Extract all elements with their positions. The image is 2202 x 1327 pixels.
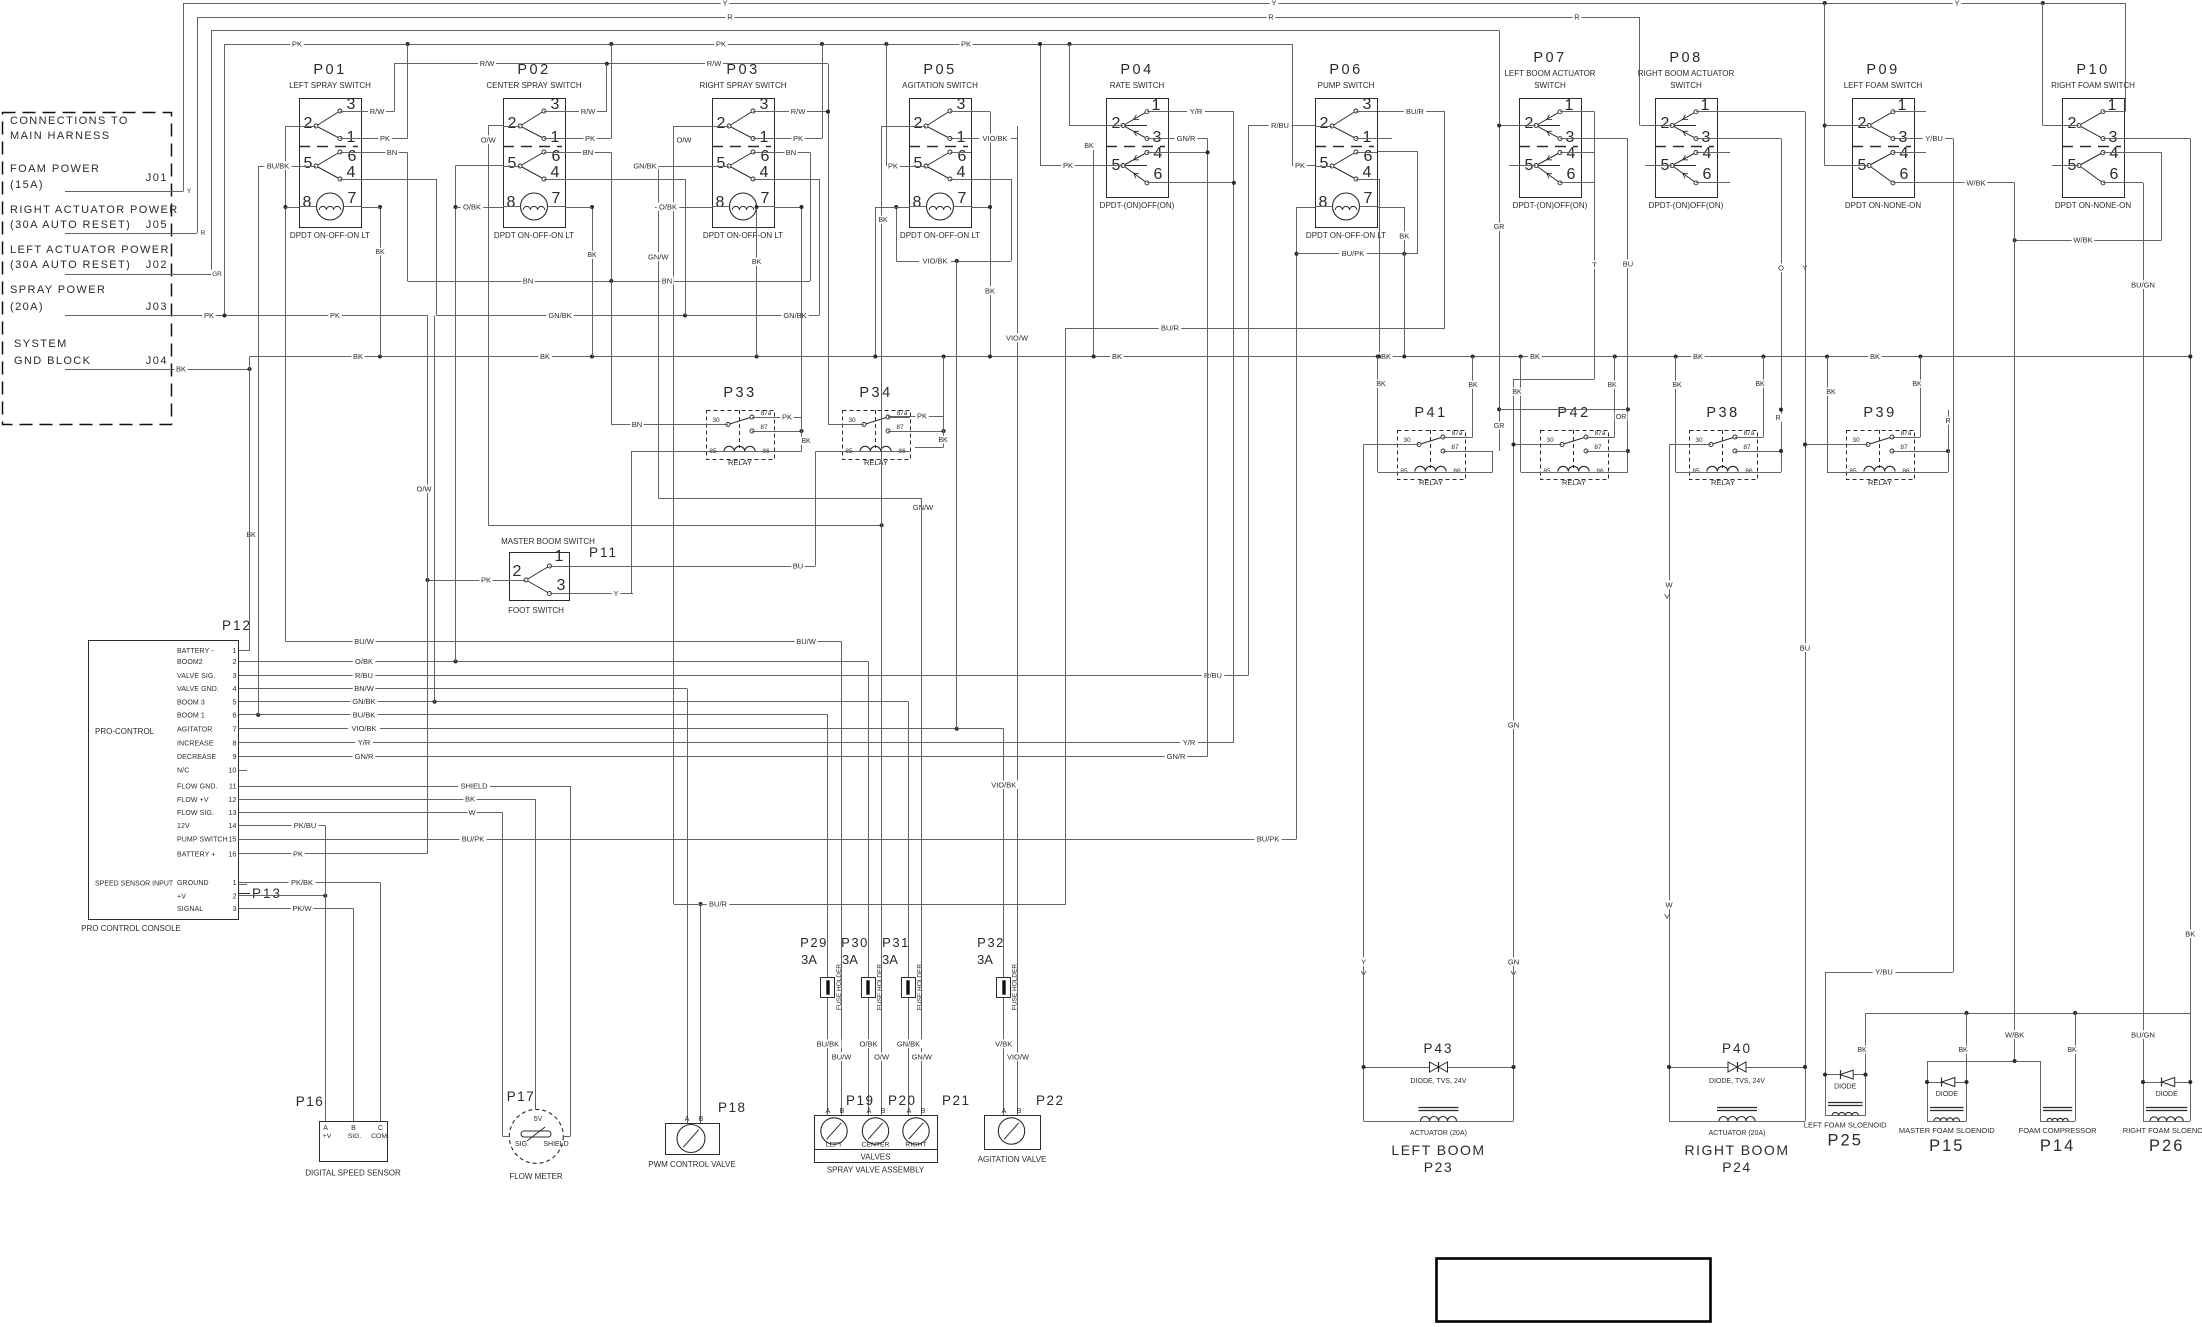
svg-text:V/BK: V/BK — [995, 1039, 1012, 1048]
svg-text:15: 15 — [228, 835, 236, 844]
svg-text:5: 5 — [508, 155, 517, 172]
svg-text:VIO/W: VIO/W — [1007, 1052, 1030, 1061]
svg-text:BU: BU — [793, 561, 803, 570]
svg-text:BK: BK — [353, 352, 363, 361]
svg-text:7: 7 — [958, 190, 967, 207]
svg-text:B: B — [921, 1108, 926, 1115]
svg-text:BK: BK — [1530, 352, 1540, 361]
svg-text:DIODE: DIODE — [1834, 1084, 1857, 1091]
svg-text:30: 30 — [712, 417, 720, 424]
svg-text:O/BK: O/BK — [355, 657, 373, 666]
svg-text:P38: P38 — [1706, 405, 1739, 421]
svg-text:FUSE HOLDER: FUSE HOLDER — [877, 964, 884, 1011]
svg-text:CENTER SPRAY SWITCH: CENTER SPRAY SWITCH — [486, 81, 581, 90]
svg-text:BK: BK — [801, 438, 811, 445]
svg-text:GN/BK: GN/BK — [897, 1039, 920, 1048]
svg-text:PK: PK — [961, 39, 971, 48]
svg-text:BK: BK — [1376, 381, 1386, 388]
svg-text:J04: J04 — [146, 355, 168, 367]
svg-text:GN/W: GN/W — [648, 252, 669, 261]
svg-text:BK: BK — [1399, 231, 1409, 240]
svg-text:7: 7 — [1364, 190, 1373, 207]
svg-text:P16: P16 — [296, 1094, 325, 1109]
svg-text:BU/GN: BU/GN — [2131, 1030, 2155, 1039]
svg-text:VALVES: VALVES — [861, 1153, 891, 1162]
svg-text:VIO/W: VIO/W — [1006, 333, 1029, 342]
svg-text:PK/W: PK/W — [292, 904, 312, 913]
svg-text:5: 5 — [232, 697, 236, 706]
svg-text:1: 1 — [555, 548, 564, 565]
svg-text:3: 3 — [1899, 129, 1908, 146]
svg-text:6: 6 — [1364, 148, 1373, 165]
svg-text:PUMP SWITCH: PUMP SWITCH — [1318, 81, 1375, 90]
svg-text:3: 3 — [347, 96, 356, 113]
svg-text:4: 4 — [1703, 145, 1712, 162]
svg-text:6: 6 — [232, 710, 236, 719]
svg-text:GND BLOCK: GND BLOCK — [14, 355, 91, 367]
svg-text:J01: J01 — [146, 172, 168, 184]
svg-text:BN: BN — [387, 148, 397, 157]
svg-text:BK: BK — [1112, 352, 1122, 361]
svg-text:4: 4 — [1567, 145, 1576, 162]
svg-text:SHIELD: SHIELD — [460, 781, 488, 790]
svg-text:P33: P33 — [723, 385, 756, 401]
svg-text:P01: P01 — [313, 62, 346, 78]
svg-text:J03: J03 — [146, 301, 168, 313]
svg-text:P06: P06 — [1329, 62, 1362, 78]
svg-text:2: 2 — [232, 891, 236, 900]
svg-text:2: 2 — [1320, 115, 1329, 132]
svg-text:87: 87 — [1743, 444, 1751, 451]
svg-text:BN: BN — [632, 420, 642, 429]
svg-text:PK: PK — [481, 575, 491, 584]
svg-text:86: 86 — [1596, 468, 1604, 475]
svg-text:P32: P32 — [977, 935, 1005, 950]
svg-text:5V: 5V — [534, 1116, 543, 1123]
svg-text:87: 87 — [1594, 444, 1602, 451]
svg-text:PRO-CONTROL: PRO-CONTROL — [95, 727, 155, 736]
svg-text:FOOT SWITCH: FOOT SWITCH — [508, 606, 564, 615]
svg-text:4: 4 — [347, 164, 356, 181]
svg-text:J02: J02 — [146, 259, 168, 271]
svg-text:87: 87 — [896, 424, 904, 431]
svg-text:J05: J05 — [146, 219, 168, 231]
svg-text:BN/W: BN/W — [354, 684, 375, 693]
svg-text:BK: BK — [2067, 1047, 2077, 1054]
svg-text:R: R — [1945, 418, 1950, 425]
svg-text:2: 2 — [232, 657, 236, 666]
svg-text:+V: +V — [323, 1133, 332, 1140]
svg-text:BK: BK — [1755, 381, 1765, 388]
svg-text:BU: BU — [1623, 259, 1633, 268]
svg-text:SHIELD: SHIELD — [543, 1141, 568, 1148]
svg-text:BU/R: BU/R — [1406, 107, 1425, 116]
svg-text:RIGHT FOAM SLOENOID: RIGHT FOAM SLOENOID — [2123, 1126, 2202, 1135]
svg-text:30: 30 — [1403, 437, 1411, 444]
svg-text:3: 3 — [557, 577, 566, 594]
svg-text:5: 5 — [717, 155, 726, 172]
svg-text:BK: BK — [375, 249, 385, 256]
svg-text:BU/W: BU/W — [796, 637, 817, 646]
svg-text:4: 4 — [2110, 145, 2119, 162]
svg-text:4: 4 — [760, 164, 769, 181]
svg-text:VIO/BK: VIO/BK — [982, 134, 1007, 143]
svg-text:86: 86 — [1453, 468, 1461, 475]
svg-text:SWITCH: SWITCH — [1534, 81, 1566, 90]
svg-text:COM.: COM. — [371, 1133, 389, 1140]
svg-text:6: 6 — [552, 148, 561, 165]
svg-text:SPRAY VALVE ASSEMBLY: SPRAY VALVE ASSEMBLY — [827, 1166, 925, 1175]
svg-text:7: 7 — [348, 190, 357, 207]
svg-text:GN/W: GN/W — [912, 1052, 933, 1061]
svg-text:BK: BK — [246, 532, 256, 539]
svg-text:BOOM 3: BOOM 3 — [177, 699, 205, 706]
svg-text:P31: P31 — [882, 935, 910, 950]
svg-text:P41: P41 — [1414, 405, 1447, 421]
svg-text:BK: BK — [1826, 389, 1836, 396]
svg-text:12: 12 — [228, 795, 236, 804]
svg-text:PK: PK — [330, 311, 340, 320]
svg-text:4: 4 — [1900, 145, 1909, 162]
svg-text:BK: BK — [1672, 382, 1682, 389]
svg-text:BK: BK — [938, 437, 948, 444]
svg-text:RIGHT ACTUATOR POWER: RIGHT ACTUATOR POWER — [10, 204, 179, 216]
svg-text:PK/BU: PK/BU — [294, 821, 317, 830]
svg-text:2: 2 — [1112, 115, 1121, 132]
svg-text:2: 2 — [1661, 115, 1670, 132]
svg-text:87a: 87a — [1595, 430, 1606, 437]
svg-text:R/W: R/W — [581, 107, 597, 116]
svg-text:PUMP SWITCH: PUMP SWITCH — [177, 837, 228, 844]
svg-text:DPDT ON-OFF-ON LT: DPDT ON-OFF-ON LT — [290, 231, 370, 240]
svg-text:P43: P43 — [1423, 1041, 1453, 1056]
svg-text:1: 1 — [551, 129, 560, 146]
svg-text:7: 7 — [232, 724, 236, 733]
svg-text:BK: BK — [878, 217, 888, 224]
svg-text:ACTUATOR (20A): ACTUATOR (20A) — [1709, 1130, 1766, 1137]
svg-text:BU/BK: BU/BK — [353, 710, 376, 719]
svg-text:INCREASE: INCREASE — [177, 740, 214, 747]
svg-text:GR: GR — [1494, 224, 1505, 231]
svg-text:GN/BK: GN/BK — [548, 311, 571, 320]
svg-text:O/W: O/W — [481, 135, 497, 144]
svg-text:BU/BK: BU/BK — [817, 1039, 840, 1048]
svg-text:N/C: N/C — [177, 768, 189, 775]
svg-text:(30A AUTO RESET): (30A AUTO RESET) — [10, 259, 131, 271]
svg-text:7: 7 — [552, 190, 561, 207]
svg-text:3: 3 — [232, 904, 236, 913]
svg-text:BU: BU — [1800, 643, 1810, 652]
svg-text:BK: BK — [1468, 382, 1478, 389]
svg-text:Y: Y — [613, 589, 618, 598]
svg-text:C: C — [378, 1125, 383, 1132]
svg-text:GROUND: GROUND — [177, 880, 209, 887]
svg-text:3A: 3A — [801, 952, 817, 967]
svg-text:DIGITAL SPEED SENSOR: DIGITAL SPEED SENSOR — [305, 1169, 401, 1178]
svg-text:86: 86 — [1745, 468, 1753, 475]
svg-text:B: B — [699, 1116, 704, 1123]
svg-text:3: 3 — [2109, 129, 2118, 146]
svg-text:GN/R: GN/R — [355, 752, 374, 761]
svg-text:5: 5 — [304, 155, 313, 172]
svg-text:6: 6 — [1567, 166, 1576, 183]
svg-text:A: A — [323, 1125, 328, 1132]
svg-text:2: 2 — [508, 115, 517, 132]
svg-text:FOAM POWER: FOAM POWER — [10, 163, 100, 175]
svg-text:DIODE, TVS, 24V: DIODE, TVS, 24V — [1709, 1078, 1765, 1085]
svg-text:P20: P20 — [888, 1093, 917, 1108]
svg-text:BU/GN: BU/GN — [2131, 280, 2155, 289]
svg-text:85: 85 — [1543, 468, 1551, 475]
svg-text:A: A — [867, 1108, 872, 1115]
svg-text:DPDT-(ON)OFF(ON): DPDT-(ON)OFF(ON) — [1649, 201, 1724, 210]
svg-text:87a: 87a — [1744, 430, 1755, 437]
svg-text:P02: P02 — [517, 62, 550, 78]
svg-text:LEFT ACTUATOR POWER: LEFT ACTUATOR POWER — [10, 244, 170, 256]
svg-text:3: 3 — [1153, 129, 1162, 146]
svg-text:3: 3 — [760, 96, 769, 113]
svg-text:AGITATOR: AGITATOR — [177, 726, 212, 733]
svg-text:W: W — [468, 808, 476, 817]
svg-text:1: 1 — [1363, 129, 1372, 146]
svg-text:Y/BU: Y/BU — [1875, 967, 1893, 976]
svg-text:3: 3 — [957, 96, 966, 113]
svg-text:AGITATION VALVE: AGITATION VALVE — [978, 1155, 1047, 1164]
svg-text:PK: PK — [1295, 161, 1305, 170]
svg-text:PK: PK — [782, 412, 792, 421]
svg-text:4: 4 — [957, 164, 966, 181]
svg-text:PK: PK — [380, 134, 390, 143]
svg-text:P29: P29 — [800, 935, 828, 950]
svg-text:DIODE: DIODE — [2156, 1091, 2179, 1098]
svg-text:LEFT FOAM SLOENOID: LEFT FOAM SLOENOID — [1804, 1121, 1887, 1130]
svg-text:6: 6 — [1900, 166, 1909, 183]
svg-text:RELAY: RELAY — [1868, 478, 1892, 487]
svg-text:3: 3 — [1566, 129, 1575, 146]
svg-text:11: 11 — [229, 782, 237, 791]
svg-text:R: R — [1268, 12, 1274, 21]
svg-text:4: 4 — [551, 164, 560, 181]
svg-text:R: R — [1775, 415, 1780, 422]
svg-text:BN: BN — [662, 276, 672, 285]
svg-text:85: 85 — [1692, 468, 1700, 475]
svg-text:CONNECTIONS TO: CONNECTIONS TO — [10, 115, 129, 127]
svg-text:BK: BK — [1512, 389, 1522, 396]
svg-text:3A: 3A — [977, 952, 993, 967]
svg-text:3: 3 — [1363, 96, 1372, 113]
svg-text:PK: PK — [888, 161, 898, 170]
svg-text:LEFT: LEFT — [826, 1142, 843, 1149]
svg-text:BK: BK — [465, 795, 475, 804]
svg-text:Y/R: Y/R — [1183, 738, 1196, 747]
svg-text:PK/BK: PK/BK — [291, 878, 313, 887]
svg-text:P18: P18 — [718, 1100, 747, 1115]
svg-text:1: 1 — [232, 646, 236, 655]
svg-text:VALVE GND.: VALVE GND. — [177, 686, 219, 693]
svg-text:(20A): (20A) — [10, 301, 44, 313]
svg-text:AGITATION SWITCH: AGITATION SWITCH — [902, 81, 978, 90]
svg-text:GN/BK: GN/BK — [633, 161, 656, 170]
svg-text:BK: BK — [1693, 352, 1703, 361]
svg-text:DPDT ON-NONE-ON: DPDT ON-NONE-ON — [1845, 201, 1922, 210]
svg-text:LEFT BOOM ACTUATOR: LEFT BOOM ACTUATOR — [1504, 69, 1595, 78]
svg-text:RIGHT SPRAY SWITCH: RIGHT SPRAY SWITCH — [699, 81, 786, 90]
svg-text:P21: P21 — [942, 1093, 971, 1108]
svg-text:W/BK: W/BK — [2005, 1030, 2024, 1039]
svg-text:GN/R: GN/R — [1177, 134, 1196, 143]
svg-text:PK: PK — [793, 134, 803, 143]
svg-text:A: A — [1002, 1108, 1007, 1115]
svg-text:BU/R: BU/R — [1161, 323, 1180, 332]
svg-text:OR: OR — [1616, 414, 1627, 421]
svg-text:14: 14 — [228, 821, 236, 830]
svg-text:VALVE SIG.: VALVE SIG. — [177, 673, 215, 680]
svg-text:PK: PK — [293, 849, 303, 858]
svg-text:FLOW SIG.: FLOW SIG. — [177, 810, 214, 817]
svg-text:R: R — [1574, 12, 1580, 21]
svg-text:FUSE HOLDER: FUSE HOLDER — [836, 964, 843, 1011]
svg-text:3: 3 — [551, 96, 560, 113]
svg-text:6: 6 — [2110, 166, 2119, 183]
svg-text:P12: P12 — [222, 618, 252, 633]
svg-text:4: 4 — [1154, 145, 1163, 162]
svg-text:87: 87 — [1451, 444, 1459, 451]
svg-text:1: 1 — [232, 878, 236, 887]
svg-text:GN/R: GN/R — [1167, 752, 1186, 761]
svg-text:6: 6 — [761, 148, 770, 165]
svg-text:5: 5 — [914, 155, 923, 172]
svg-text:O/W: O/W — [874, 1052, 890, 1061]
svg-text:O/BK: O/BK — [463, 202, 481, 211]
svg-text:R/BU: R/BU — [1271, 121, 1289, 130]
svg-text:2: 2 — [1525, 115, 1534, 132]
svg-text:GN/BK: GN/BK — [783, 311, 806, 320]
svg-text:2: 2 — [2068, 115, 2077, 132]
svg-text:P42: P42 — [1557, 405, 1590, 421]
svg-text:RELAY: RELAY — [1562, 478, 1586, 487]
svg-text:R: R — [727, 12, 733, 21]
svg-text:P34: P34 — [859, 385, 892, 401]
svg-text:PK: PK — [585, 134, 595, 143]
svg-text:86: 86 — [1902, 468, 1910, 475]
svg-text:FUSE HOLDER: FUSE HOLDER — [917, 964, 924, 1011]
svg-text:P39: P39 — [1863, 405, 1896, 421]
svg-text:FLOW +V: FLOW +V — [177, 797, 209, 804]
svg-text:Y/R: Y/R — [358, 738, 371, 747]
svg-text:87: 87 — [1900, 444, 1908, 451]
svg-text:O/W: O/W — [677, 135, 693, 144]
svg-text:30: 30 — [1546, 437, 1554, 444]
svg-text:DPDT ON-OFF-ON LT: DPDT ON-OFF-ON LT — [900, 231, 980, 240]
svg-text:B: B — [351, 1125, 356, 1132]
svg-text:9: 9 — [232, 752, 236, 761]
svg-text:P14: P14 — [2040, 1137, 2075, 1155]
svg-text:8: 8 — [507, 194, 516, 211]
svg-text:DPDT-(ON)OFF(ON): DPDT-(ON)OFF(ON) — [1100, 201, 1175, 210]
svg-text:BU/R: BU/R — [709, 899, 728, 908]
svg-text:R/BU: R/BU — [355, 671, 373, 680]
svg-text:BATTERY +: BATTERY + — [177, 851, 215, 858]
svg-text:10: 10 — [228, 766, 236, 775]
svg-text:MASTER FOAM SLOENOID: MASTER FOAM SLOENOID — [1899, 1126, 1995, 1135]
svg-text:W/BK: W/BK — [2073, 236, 2092, 245]
svg-text:T: T — [1592, 260, 1597, 269]
svg-text:6: 6 — [1703, 166, 1712, 183]
svg-text:VIO/BK: VIO/BK — [351, 724, 376, 733]
svg-text:GN: GN — [1508, 957, 1519, 966]
svg-text:PRO CONTROL CONSOLE: PRO CONTROL CONSOLE — [81, 924, 181, 933]
svg-text:P30: P30 — [841, 935, 869, 950]
svg-text:P10: P10 — [2076, 62, 2109, 78]
svg-text:BK: BK — [1870, 352, 1880, 361]
svg-text:RELAY: RELAY — [864, 458, 888, 467]
svg-text:DECREASE: DECREASE — [177, 754, 217, 761]
svg-text:P11: P11 — [589, 545, 618, 560]
svg-text:PK: PK — [917, 411, 927, 420]
svg-text:R/W: R/W — [480, 59, 496, 68]
svg-text:87a: 87a — [1901, 430, 1912, 437]
svg-text:P40: P40 — [1722, 1041, 1752, 1056]
svg-text:BK: BK — [1912, 381, 1922, 388]
svg-text:SIGNAL: SIGNAL — [177, 906, 203, 913]
svg-text:LEFT SPRAY SWITCH: LEFT SPRAY SWITCH — [289, 81, 371, 90]
svg-text:PWM CONTROL VALVE: PWM CONTROL VALVE — [648, 1160, 735, 1169]
svg-text:SWITCH: SWITCH — [1670, 81, 1702, 90]
svg-text:PK: PK — [292, 39, 302, 48]
svg-text:GN/BK: GN/BK — [352, 697, 375, 706]
svg-text:R/W: R/W — [791, 107, 807, 116]
svg-text:30: 30 — [1852, 437, 1860, 444]
svg-text:B: B — [1017, 1108, 1022, 1115]
svg-text:DPDT-(ON)OFF(ON): DPDT-(ON)OFF(ON) — [1513, 201, 1588, 210]
svg-text:8: 8 — [716, 194, 725, 211]
svg-text:O: O — [1778, 263, 1784, 272]
svg-text:P19: P19 — [846, 1093, 875, 1108]
svg-text:BK: BK — [1084, 143, 1094, 150]
svg-text:(30A AUTO RESET): (30A AUTO RESET) — [10, 219, 131, 231]
svg-text:30: 30 — [848, 417, 856, 424]
svg-text:O/W: O/W — [417, 484, 433, 493]
svg-text:P15: P15 — [1929, 1137, 1964, 1155]
svg-text:6: 6 — [958, 148, 967, 165]
svg-text:RIGHT BOOM ACTUATOR: RIGHT BOOM ACTUATOR — [1638, 69, 1735, 78]
svg-text:BK: BK — [176, 364, 186, 373]
svg-text:P23: P23 — [1424, 1159, 1453, 1175]
svg-text:2: 2 — [513, 563, 522, 580]
svg-text:BOOM 1: BOOM 1 — [177, 712, 205, 719]
svg-text:A: A — [907, 1108, 912, 1115]
svg-text:CENTER: CENTER — [862, 1142, 890, 1149]
svg-text:PK: PK — [204, 311, 214, 320]
svg-text:(15A): (15A) — [10, 179, 44, 191]
svg-text:MAIN HARNESS: MAIN HARNESS — [10, 130, 111, 142]
svg-text:BK: BK — [540, 352, 550, 361]
svg-text:BK: BK — [1857, 1047, 1867, 1054]
svg-text:87a: 87a — [1452, 430, 1463, 437]
svg-text:FLOW METER: FLOW METER — [509, 1172, 563, 1181]
svg-text:SYSTEM: SYSTEM — [14, 338, 68, 350]
svg-text:FOAM COMPRESSOR: FOAM COMPRESSOR — [2019, 1126, 2098, 1135]
svg-text:PK: PK — [1063, 161, 1073, 170]
svg-text:2: 2 — [304, 115, 313, 132]
svg-text:16: 16 — [228, 849, 236, 858]
svg-text:LEFT BOOM: LEFT BOOM — [1391, 1142, 1485, 1158]
svg-text:BU/PK: BU/PK — [1257, 834, 1280, 843]
svg-text:P13: P13 — [252, 886, 282, 901]
svg-text:BU/W: BU/W — [354, 637, 375, 646]
svg-text:BU/PK: BU/PK — [1342, 249, 1365, 258]
svg-text:30: 30 — [1695, 437, 1703, 444]
